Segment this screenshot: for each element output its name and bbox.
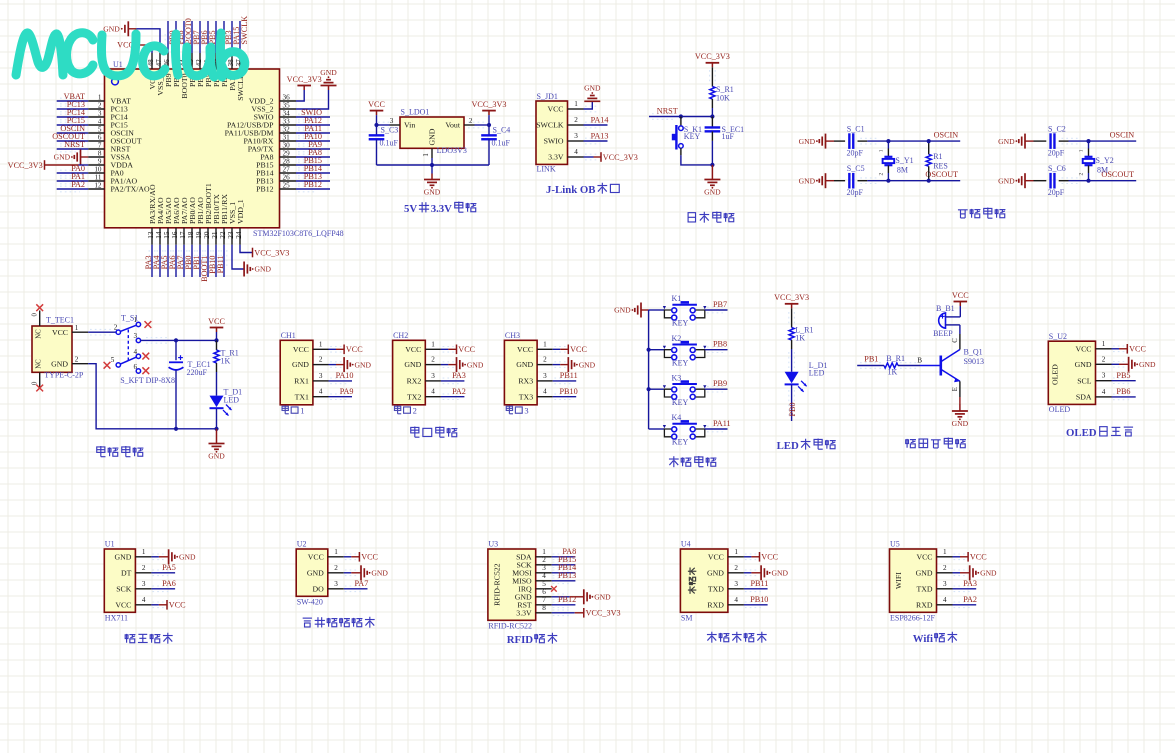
svg-text:SW-420: SW-420 bbox=[297, 597, 323, 606]
svg-text:OLED: OLED bbox=[1066, 427, 1097, 439]
svg-text:3.3V: 3.3V bbox=[516, 608, 532, 617]
svg-text:GND: GND bbox=[998, 137, 1015, 146]
svg-text:21: 21 bbox=[211, 231, 219, 239]
svg-text:CH3: CH3 bbox=[505, 331, 520, 340]
svg-text:GND: GND bbox=[114, 552, 131, 561]
svg-text:4: 4 bbox=[1102, 388, 1106, 396]
svg-text:VCC: VCC bbox=[458, 345, 475, 354]
wire net PA3 at U5 pin 3 bbox=[953, 579, 978, 592]
svg-text:10K: 10K bbox=[716, 94, 730, 103]
push button K3 KEY bbox=[649, 373, 707, 406]
wire TEC1 VCC to switch bbox=[72, 329, 116, 335]
svg-text:VCC: VCC bbox=[361, 553, 378, 562]
svg-text:PA2: PA2 bbox=[963, 595, 977, 604]
svg-text:1: 1 bbox=[542, 548, 546, 556]
ground power circuit bbox=[208, 429, 225, 461]
svg-text:3: 3 bbox=[943, 580, 947, 588]
svg-text:PA2: PA2 bbox=[71, 180, 85, 189]
svg-text:GND: GND bbox=[579, 360, 596, 369]
LDO regulator S_LDO1 body bbox=[390, 108, 473, 157]
svg-text:VCC: VCC bbox=[952, 291, 969, 300]
power VCC_3V3 at U1 pin 36 VDD_2 bbox=[287, 75, 322, 101]
svg-text:42: 42 bbox=[195, 59, 203, 67]
svg-text:4: 4 bbox=[98, 117, 102, 125]
svg-text:CH1: CH1 bbox=[281, 331, 296, 340]
svg-text:VCC: VCC bbox=[517, 345, 533, 354]
svg-text:10: 10 bbox=[94, 165, 102, 173]
capacitor S_C1 20pF bbox=[847, 124, 865, 157]
svg-text:VCC_3V3: VCC_3V3 bbox=[471, 100, 506, 109]
svg-text:GND: GND bbox=[799, 176, 816, 185]
title module U1 bbox=[125, 633, 172, 644]
svg-text:27: 27 bbox=[283, 165, 291, 173]
ground at LDO bbox=[424, 165, 441, 197]
power flag VCC buzzer bbox=[952, 291, 969, 317]
svg-text:PB6: PB6 bbox=[1116, 387, 1130, 396]
svg-text:3: 3 bbox=[542, 564, 546, 572]
svg-text:GND: GND bbox=[799, 137, 816, 146]
svg-text:GND: GND bbox=[614, 306, 631, 315]
ground at crystal S_C6 bbox=[998, 173, 1046, 188]
svg-text:GND: GND bbox=[516, 360, 533, 369]
power flag VCC_3V3 at LDO output bbox=[471, 100, 506, 125]
resistor T_R1 1K bbox=[214, 340, 239, 395]
svg-text:35: 35 bbox=[283, 101, 291, 109]
svg-text:3: 3 bbox=[574, 132, 578, 140]
wire net PB14 (U1 pin 27) bbox=[296, 164, 330, 176]
ground at crystal S_C5 bbox=[799, 173, 845, 188]
svg-text:VCC: VCC bbox=[115, 600, 131, 609]
svg-text:4: 4 bbox=[134, 348, 138, 356]
wire net PC14 (U1 pin 3) bbox=[57, 108, 88, 120]
svg-text:CH2: CH2 bbox=[393, 331, 408, 340]
svg-text:GND: GND bbox=[707, 568, 724, 577]
svg-text:13: 13 bbox=[147, 231, 155, 239]
svg-text:VDD_1: VDD_1 bbox=[236, 199, 245, 224]
svg-text:6: 6 bbox=[542, 588, 546, 596]
wire buzzer to VCC and collector bbox=[946, 317, 961, 350]
wire net PB10 at CH3 pin 4 bbox=[553, 387, 578, 400]
ground at OLED pin 2 bbox=[1112, 357, 1156, 372]
svg-text:12: 12 bbox=[94, 181, 102, 189]
svg-text:STM32F103C8T6_LQFP48: STM32F103C8T6_LQFP48 bbox=[253, 229, 344, 238]
svg-text:20pF: 20pF bbox=[1048, 149, 1065, 158]
capacitor S_C3 0.1uF bbox=[369, 125, 399, 165]
svg-text:7: 7 bbox=[542, 596, 546, 604]
svg-text:HX711: HX711 bbox=[105, 613, 128, 622]
svg-text:KEY: KEY bbox=[684, 132, 701, 141]
svg-text:GND: GND bbox=[424, 188, 441, 197]
svg-text:E: E bbox=[952, 387, 959, 391]
svg-text:GND: GND bbox=[594, 593, 611, 602]
resistor S_R1 10K bbox=[710, 85, 734, 117]
svg-text:1K: 1K bbox=[888, 367, 898, 376]
capacitor S_C6 20pF bbox=[1048, 164, 1066, 197]
wire net PB7 (U1 pin 43) bbox=[189, 21, 201, 53]
title serial circuit bbox=[411, 427, 458, 438]
svg-text:20pF: 20pF bbox=[847, 188, 864, 197]
module U5 body bbox=[890, 539, 953, 622]
wire net OSCIN (U1 pin 5) bbox=[57, 124, 88, 136]
wire VCC to Vin bbox=[374, 122, 400, 128]
svg-text:B_B1: B_B1 bbox=[936, 304, 955, 313]
ground at U1 pin 23 VSS_1 bbox=[232, 245, 271, 277]
svg-text:C: C bbox=[952, 338, 959, 343]
wire net PA3 (U1 pin 13) bbox=[144, 245, 155, 277]
svg-text:32: 32 bbox=[283, 125, 291, 133]
svg-text:2: 2 bbox=[734, 564, 738, 572]
wire net PA9 at CH1 pin 4 bbox=[329, 387, 354, 400]
no-connect x on TEC1 shield pins bbox=[36, 304, 43, 391]
wire net PA2 at U5 pin 4 bbox=[953, 595, 978, 608]
wire OSCOUT row S_C5 bbox=[858, 170, 961, 184]
svg-text:RXD: RXD bbox=[916, 600, 933, 609]
wire emitter to ground bbox=[952, 381, 969, 428]
svg-text:K1: K1 bbox=[672, 294, 682, 303]
svg-text:GND: GND bbox=[404, 360, 421, 369]
wire net PB10 at U4 pin 4 bbox=[744, 595, 769, 608]
svg-text:2: 2 bbox=[943, 564, 947, 572]
power VCC at U1 pin 4 bbox=[151, 600, 186, 610]
svg-text:8: 8 bbox=[98, 149, 102, 157]
svg-text:2: 2 bbox=[543, 356, 547, 364]
wire net PB14 at U3 pin 3 bbox=[552, 563, 577, 576]
wire OSCIN row S_C1 bbox=[858, 130, 961, 144]
wire net OSCOUT (U1 pin 6) bbox=[52, 132, 88, 144]
svg-text:GND: GND bbox=[584, 84, 601, 93]
svg-text:38: 38 bbox=[227, 59, 235, 67]
svg-text:PA11: PA11 bbox=[713, 419, 731, 428]
wire net BOOT1 (U1 pin 20) bbox=[200, 245, 211, 282]
svg-text:VCC_3V3: VCC_3V3 bbox=[603, 153, 638, 162]
svg-text:VCC_3V3: VCC_3V3 bbox=[254, 248, 289, 257]
svg-text:GND: GND bbox=[320, 68, 337, 77]
svg-text:2: 2 bbox=[142, 564, 146, 572]
ground at CH3 pin 2 bbox=[553, 357, 596, 372]
svg-text:S_JD1: S_JD1 bbox=[537, 92, 558, 101]
no-connect x on switch pins 1 4 6 5 bbox=[104, 321, 152, 374]
svg-text:RX3: RX3 bbox=[518, 377, 533, 386]
no-connect x at U3 pin 5 bbox=[551, 586, 557, 592]
svg-text:GND: GND bbox=[1139, 360, 1156, 369]
svg-text:2: 2 bbox=[319, 356, 323, 364]
svg-text:34: 34 bbox=[283, 109, 291, 117]
wire net PB12 (U1 pin 25) bbox=[296, 180, 330, 192]
MCUclub watermark logo bbox=[16, 33, 245, 77]
svg-text:DT: DT bbox=[121, 568, 132, 577]
svg-text:S_C6: S_C6 bbox=[1048, 164, 1066, 173]
svg-text:VCC: VCC bbox=[570, 345, 587, 354]
power flag VCC_3V3 LED circuit bbox=[774, 293, 809, 327]
wire net PB13 (U1 pin 26) bbox=[296, 172, 330, 184]
svg-text:GND: GND bbox=[1075, 360, 1092, 369]
wire net PB12 at U3 pin 7 bbox=[552, 595, 577, 608]
diode L_D1 LED bbox=[785, 361, 828, 392]
svg-text:GND: GND bbox=[54, 153, 71, 162]
svg-text:4: 4 bbox=[543, 388, 547, 396]
svg-text:26: 26 bbox=[283, 173, 291, 181]
svg-text:U4: U4 bbox=[681, 539, 691, 548]
power VCC_3V3 at U1 pin 24 VDD_1 bbox=[240, 245, 289, 257]
wire net PA6 at U1 pin 3 bbox=[151, 579, 176, 592]
svg-text:BEEP: BEEP bbox=[933, 329, 953, 338]
svg-text:VCC: VCC bbox=[916, 552, 932, 561]
wire net PA6 (U1 pin 16) bbox=[168, 245, 179, 277]
svg-text:S_C3: S_C3 bbox=[381, 125, 399, 134]
svg-text:OSCIN: OSCIN bbox=[934, 130, 959, 139]
module U3 body bbox=[488, 539, 552, 630]
power VCC at U4 pin 1 bbox=[744, 552, 779, 562]
wire net PA2 at CH2 pin 4 bbox=[441, 387, 466, 400]
svg-text:K3: K3 bbox=[672, 373, 682, 382]
svg-text:3.3V: 3.3V bbox=[548, 153, 564, 162]
svg-text:KEY: KEY bbox=[672, 358, 689, 367]
svg-text:6: 6 bbox=[134, 363, 138, 371]
svg-text:3: 3 bbox=[142, 580, 146, 588]
ground at J-Link pin 1 bbox=[584, 84, 602, 112]
wire LDO gnd rail bbox=[377, 148, 490, 167]
wire net PA9 (U1 pin 30) bbox=[296, 140, 330, 152]
ground at U1 pin 1 bbox=[151, 549, 196, 564]
push button K1 KEY bbox=[649, 294, 707, 327]
svg-text:PA5: PA5 bbox=[162, 563, 176, 572]
svg-text:PB5: PB5 bbox=[1116, 371, 1130, 380]
serial header CH1 body bbox=[280, 331, 328, 405]
ground at U4 pin 2 bbox=[744, 565, 789, 580]
svg-text:1: 1 bbox=[75, 324, 79, 332]
svg-text:VCC: VCC bbox=[1129, 345, 1146, 354]
svg-text:PB9: PB9 bbox=[713, 379, 727, 388]
wire net PA11 at K4 bbox=[705, 419, 731, 432]
svg-text:29: 29 bbox=[283, 149, 291, 157]
wire net VBAT (U1 pin 1) bbox=[57, 92, 88, 104]
wire net PA3 at CH2 pin 3 bbox=[441, 371, 466, 384]
svg-text:1: 1 bbox=[1079, 149, 1085, 152]
svg-text:T_TEC1: T_TEC1 bbox=[46, 316, 74, 325]
svg-text:8M: 8M bbox=[1097, 166, 1108, 175]
svg-text:LED: LED bbox=[809, 369, 825, 378]
svg-text:VCC: VCC bbox=[405, 345, 421, 354]
capacitor S_C4 0.1uF bbox=[481, 125, 510, 165]
svg-text:GND: GND bbox=[51, 359, 68, 368]
wire net PB11 at CH3 pin 3 bbox=[553, 371, 578, 384]
svg-text:VCC_3V3: VCC_3V3 bbox=[8, 161, 43, 170]
TYPE-C connector T_TEC1 body bbox=[32, 313, 84, 386]
svg-text:RX1: RX1 bbox=[294, 377, 309, 386]
ground at U1 pin 35 VSS_2 bbox=[296, 68, 337, 109]
svg-text:6: 6 bbox=[98, 133, 102, 141]
svg-text:48: 48 bbox=[147, 59, 155, 67]
J-Link connector S_JD1 body bbox=[536, 92, 584, 174]
buzzer B_B1 BEEP bbox=[933, 304, 955, 338]
svg-text:GND: GND bbox=[428, 128, 437, 145]
svg-text:8: 8 bbox=[542, 604, 546, 612]
svg-text:33: 33 bbox=[283, 117, 291, 125]
svg-text:20: 20 bbox=[203, 231, 211, 239]
svg-text:PA7: PA7 bbox=[354, 579, 368, 588]
svg-text:2: 2 bbox=[334, 564, 338, 572]
svg-text:3: 3 bbox=[390, 117, 394, 125]
svg-text:GND: GND bbox=[355, 360, 372, 369]
svg-text:1: 1 bbox=[334, 548, 338, 556]
wire net PA2 (U1 pin 12) bbox=[57, 180, 88, 192]
svg-text:Vout: Vout bbox=[445, 121, 460, 130]
svg-text:S_Y1: S_Y1 bbox=[895, 156, 913, 165]
svg-text:4: 4 bbox=[574, 148, 578, 156]
push button K4 KEY bbox=[649, 413, 707, 446]
svg-text:S_Y2: S_Y2 bbox=[1096, 156, 1114, 165]
ground at U1 pin 8 VSSA bbox=[54, 150, 89, 165]
wire net PA10 at CH1 pin 3 bbox=[329, 371, 354, 384]
power VCC_3V3 at U3 pin 8 bbox=[552, 608, 621, 618]
svg-text:S_C1: S_C1 bbox=[847, 124, 865, 133]
svg-text:LDO3V3: LDO3V3 bbox=[437, 146, 467, 155]
svg-text:2: 2 bbox=[469, 117, 473, 125]
wire net PB9 (U1 pin 46) bbox=[165, 21, 177, 53]
svg-text:ESP8266-12F: ESP8266-12F bbox=[890, 613, 935, 622]
svg-text:NRST: NRST bbox=[657, 107, 678, 116]
svg-text:1K: 1K bbox=[221, 357, 231, 366]
svg-text:24: 24 bbox=[235, 231, 243, 239]
svg-text:2: 2 bbox=[878, 173, 884, 176]
svg-text:KEY: KEY bbox=[672, 438, 689, 447]
wire net PB15 (U1 pin 28) bbox=[296, 156, 330, 168]
svg-text:GND: GND bbox=[998, 176, 1015, 185]
ground at key bus bbox=[614, 303, 648, 318]
svg-text:VCC_3V3: VCC_3V3 bbox=[586, 609, 621, 618]
svg-text:47: 47 bbox=[155, 59, 163, 67]
wire net PB9 at K3 bbox=[705, 379, 728, 392]
title OLED display bbox=[1066, 427, 1133, 439]
svg-text:VCC: VCC bbox=[208, 317, 225, 326]
wire net PB8 at K2 bbox=[705, 340, 728, 353]
wire net PA4 (U1 pin 14) bbox=[152, 245, 163, 277]
svg-text:OLED: OLED bbox=[1049, 405, 1071, 414]
svg-text:3: 3 bbox=[319, 372, 323, 380]
svg-text:19: 19 bbox=[195, 231, 203, 239]
wire key bus bbox=[647, 310, 651, 429]
svg-text:Wifi: Wifi bbox=[913, 633, 933, 645]
svg-text:PB10: PB10 bbox=[750, 595, 768, 604]
ground reset bbox=[704, 165, 721, 197]
crystal S_Y2 8M bbox=[1079, 141, 1114, 181]
svg-text:OLED: OLED bbox=[1051, 364, 1060, 385]
title power circuit bbox=[97, 446, 144, 457]
svg-text:5: 5 bbox=[111, 356, 115, 364]
svg-text:PB13: PB13 bbox=[558, 571, 576, 580]
svg-text:K2: K2 bbox=[672, 334, 682, 343]
svg-text:3: 3 bbox=[734, 580, 738, 588]
svg-text:VCC: VCC bbox=[708, 552, 724, 561]
svg-text:S_C2: S_C2 bbox=[1048, 124, 1066, 133]
power VCC at U5 pin 1 bbox=[953, 552, 988, 562]
svg-text:GND: GND bbox=[208, 452, 225, 461]
svg-text:0: 0 bbox=[32, 313, 39, 317]
svg-text:PA3: PA3 bbox=[452, 371, 466, 380]
svg-text:3: 3 bbox=[431, 372, 435, 380]
svg-text:PB7: PB7 bbox=[713, 300, 727, 309]
svg-text:SCL: SCL bbox=[1077, 376, 1092, 385]
svg-text:GND: GND bbox=[371, 569, 388, 578]
svg-text:2: 2 bbox=[1079, 173, 1085, 176]
svg-text:4: 4 bbox=[142, 596, 146, 604]
svg-text:0.1uF: 0.1uF bbox=[380, 139, 399, 148]
label serial port 3 bbox=[506, 405, 528, 415]
wire switch pin3 to VCC node bbox=[141, 338, 219, 344]
svg-text:VCC: VCC bbox=[346, 345, 363, 354]
svg-text:TX2: TX2 bbox=[407, 392, 421, 401]
push button K2 KEY bbox=[649, 334, 707, 367]
svg-text:30: 30 bbox=[283, 141, 291, 149]
wire net PB6 at OLED pin 4 bbox=[1112, 387, 1136, 400]
svg-text:28: 28 bbox=[283, 157, 291, 165]
svg-text:SDA: SDA bbox=[1076, 393, 1092, 402]
svg-text:1: 1 bbox=[574, 100, 578, 108]
wire net PA5 (U1 pin 15) bbox=[160, 245, 171, 277]
svg-text:TX3: TX3 bbox=[519, 392, 533, 401]
svg-text:PA2: PA2 bbox=[452, 387, 466, 396]
wire net PB11 at U4 pin 3 bbox=[744, 579, 769, 592]
resistor B_R1 1K bbox=[884, 354, 941, 376]
svg-text:9: 9 bbox=[98, 157, 102, 165]
svg-text:OSCOUT: OSCOUT bbox=[925, 170, 958, 179]
wire net PA10 (U1 pin 31) bbox=[296, 132, 330, 144]
svg-text:NC: NC bbox=[36, 329, 43, 339]
svg-text:PB0: PB0 bbox=[788, 402, 797, 416]
ground at CH1 pin 2 bbox=[329, 357, 372, 372]
wire net PB3 (U1 pin 39) bbox=[221, 21, 233, 53]
svg-text:U5: U5 bbox=[890, 539, 900, 548]
svg-text:2: 2 bbox=[75, 356, 79, 364]
svg-text:3: 3 bbox=[543, 372, 547, 380]
svg-text:1: 1 bbox=[300, 405, 304, 415]
svg-text:PA9: PA9 bbox=[340, 387, 354, 396]
svg-text:S_C5: S_C5 bbox=[847, 164, 865, 173]
svg-text:2: 2 bbox=[431, 356, 435, 364]
svg-text:1: 1 bbox=[431, 340, 435, 348]
MCU right pins 36-25 bbox=[225, 93, 296, 193]
svg-text:SCK: SCK bbox=[116, 584, 132, 593]
crystal S_Y1 8M bbox=[878, 141, 913, 181]
title crystal circuit bbox=[958, 208, 1005, 219]
wire net NRST (U1 pin 7) bbox=[57, 140, 88, 152]
wire net PA7 at U2 pin 3 bbox=[344, 579, 369, 592]
svg-text:1: 1 bbox=[142, 548, 146, 556]
wire net PB0 (U1 pin 18) bbox=[184, 245, 195, 277]
svg-text:PB8: PB8 bbox=[713, 340, 727, 349]
svg-text:20pF: 20pF bbox=[1048, 188, 1065, 197]
svg-text:17: 17 bbox=[179, 231, 187, 239]
wire net PB1 to base resistor bbox=[857, 354, 884, 368]
power VCC_3V3 at U1 pin 9 VDDA bbox=[8, 160, 89, 170]
svg-text:2: 2 bbox=[542, 556, 546, 564]
wire net PB5 at OLED pin 3 bbox=[1112, 371, 1136, 384]
title module U3 bbox=[507, 633, 558, 646]
svg-text:15: 15 bbox=[163, 231, 171, 239]
power VCC at CH3 pin 1 bbox=[553, 345, 588, 355]
svg-text:SM: SM bbox=[681, 613, 693, 622]
svg-text:U1: U1 bbox=[105, 539, 115, 548]
MCU U1 STM32F103C8T6 body bbox=[105, 60, 344, 238]
wire net PA0 (U1 pin 10) bbox=[57, 164, 88, 176]
svg-text:S9013: S9013 bbox=[964, 357, 984, 366]
svg-text:WIFI: WIFI bbox=[894, 572, 903, 589]
ground at U3 pin 6 bbox=[552, 589, 611, 604]
title J-Link OB bbox=[546, 183, 619, 196]
wire net PB6 (U1 pin 42) bbox=[197, 21, 209, 53]
wire net BOOT0 (U1 pin 44) bbox=[181, 18, 193, 53]
svg-text:GND: GND bbox=[980, 569, 997, 578]
